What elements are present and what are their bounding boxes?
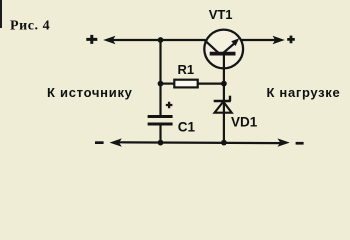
svg-text:VT1: VT1 (209, 7, 233, 22)
minus terminal bottom-left (95, 141, 104, 144)
capacitor C1 (148, 102, 173, 124)
wire: R1 right lead (198, 82, 224, 84)
scan edge artifact (0, 0, 2, 28)
svg-text:VD1: VD1 (231, 115, 258, 130)
wire: R1 left lead (161, 82, 175, 84)
minus terminal bottom-right (296, 142, 304, 145)
resistor R1 (174, 80, 197, 88)
node: base / VD1 junction (221, 81, 227, 87)
svg-text:К источнику: К источнику (47, 85, 133, 100)
wire: C1 branch lower segment (159, 126, 161, 143)
wire: base lead down from VT1 (223, 56, 225, 85)
node: top rail / C1 branch junction (158, 37, 164, 43)
arrow bottom-left (110, 138, 122, 146)
wire: C1 branch upper segment (159, 40, 161, 115)
node: bottom rail / VD1 junction (221, 140, 227, 146)
wire: top rail left segment (112, 39, 206, 41)
transistor VT1 (204, 30, 243, 69)
plus terminal top-left (86, 35, 97, 44)
svg-text:К нагрузке: К нагрузке (267, 85, 341, 100)
node: R1 left junction (158, 81, 164, 87)
svg-text:C1: C1 (178, 120, 196, 135)
arrow bottom-right (278, 138, 290, 146)
wire: top rail right segment (241, 39, 277, 41)
arrow top-right (273, 36, 285, 44)
svg-text:Рис. 4: Рис. 4 (10, 19, 50, 34)
arrow top-left (103, 36, 115, 44)
svg-text:R1: R1 (178, 62, 195, 77)
node: bottom rail / C1 junction (158, 140, 164, 146)
plus terminal top-right (287, 36, 295, 44)
wire: bottom rail (118, 141, 282, 144)
zener diode VD1 (214, 84, 232, 143)
